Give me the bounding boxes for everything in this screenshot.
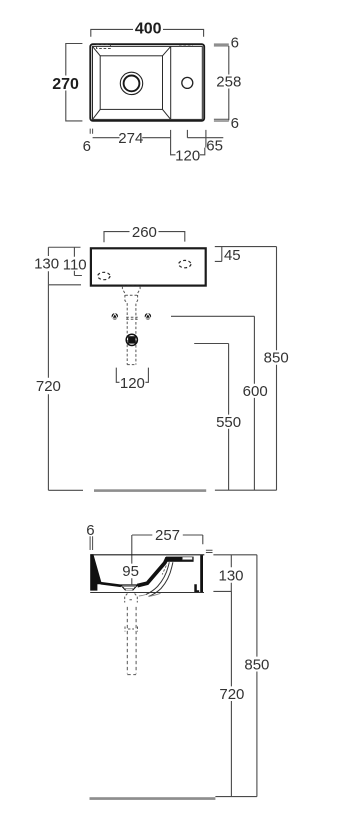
dim 110 line <box>74 247 82 275</box>
dim 95 extension line <box>131 535 133 584</box>
dim 550 line <box>194 344 228 491</box>
faucet hole slot <box>182 557 192 560</box>
dim 270 bracket <box>66 44 83 121</box>
dim 65 line <box>187 130 223 148</box>
svg-text:130: 130 <box>34 256 59 273</box>
drain flange (section) <box>121 585 138 590</box>
trap inlet dashes (side) <box>125 594 138 603</box>
svg-text:260: 260 <box>132 224 157 241</box>
dim 120 bracket (front) <box>116 368 148 383</box>
overflow dashed rectangle <box>97 45 111 49</box>
svg-text:258: 258 <box>216 74 241 91</box>
svg-text:65: 65 <box>206 138 223 155</box>
dim 130 line (side) <box>213 555 231 592</box>
right wall (section) <box>200 555 203 592</box>
faucet hole <box>182 77 193 88</box>
dim 120 bracket (plan) <box>171 148 205 155</box>
left top extension tick <box>48 246 80 248</box>
deck hidden dashed line <box>179 45 193 47</box>
right 6 bottom extension lines <box>214 119 229 121</box>
svg-text:400: 400 <box>135 21 162 38</box>
floor bar (side) <box>90 797 216 800</box>
basin front outline <box>91 248 206 285</box>
waste pipe dashed (side) <box>127 607 136 675</box>
deck band (section) <box>166 557 194 562</box>
waste outlet symbol <box>126 334 137 345</box>
bowl corner diagonal bottom-right <box>163 109 171 119</box>
dim 45 bracket <box>215 247 222 262</box>
drain trap dashed outline <box>122 286 140 364</box>
drain outer circle <box>120 72 142 94</box>
svg-text:550: 550 <box>216 414 241 431</box>
side top surface line <box>90 554 204 556</box>
bowl right divider <box>170 46 172 119</box>
right foot (section) <box>194 584 199 592</box>
svg-text:6: 6 <box>231 34 239 51</box>
svg-text:600: 600 <box>243 383 268 400</box>
svg-text:6: 6 <box>83 138 91 155</box>
bowl corner diagonal bottom-left <box>93 109 101 119</box>
dim 850 line (front) <box>276 247 278 491</box>
svg-text:130: 130 <box>218 567 243 584</box>
dimension baseline (side) <box>215 796 257 798</box>
svg-text:110: 110 <box>63 257 87 274</box>
top connector line (side) <box>213 554 257 556</box>
dim 600 line <box>171 316 254 490</box>
divider extension line <box>170 130 172 156</box>
svg-text:120: 120 <box>175 147 200 164</box>
svg-text:257: 257 <box>155 527 180 544</box>
dim 257 bracket <box>132 535 203 544</box>
dim 260 bracket <box>104 232 185 243</box>
basin outer rim <box>90 44 204 121</box>
channel under edges below bottom line <box>139 593 161 596</box>
svg-text:6: 6 <box>231 115 239 132</box>
drain inner circle <box>124 76 140 92</box>
svg-text:720: 720 <box>36 378 61 395</box>
svg-text:270: 270 <box>52 76 79 93</box>
bowl bottom band <box>101 583 121 586</box>
bottom 6 tick marks <box>90 129 92 134</box>
dim 274 line <box>93 137 171 139</box>
basin inner rim <box>93 46 203 119</box>
trap union dashed <box>126 317 138 319</box>
svg-text:45: 45 <box>224 247 241 264</box>
fixing screw right <box>145 313 151 319</box>
floor bar (front) <box>94 489 206 492</box>
svg-text:95: 95 <box>122 563 139 580</box>
svg-text:720: 720 <box>219 686 244 703</box>
bowl corner diagonal top-right <box>163 46 171 55</box>
fixing screw left <box>112 313 118 319</box>
svg-text:274: 274 <box>118 130 143 147</box>
overflow channel left edge <box>146 562 169 594</box>
overflow channel right edge <box>149 562 173 596</box>
side left wall section <box>90 554 101 590</box>
right rim extension marks <box>206 550 213 552</box>
svg-text:120: 120 <box>120 375 145 392</box>
side bottom line <box>90 592 204 594</box>
bowl bottom rectangle <box>100 56 162 110</box>
dim 850 line (side) <box>256 555 258 797</box>
pipe union dashed (side) <box>125 627 138 632</box>
faucet hole dashed ellipse <box>179 260 191 267</box>
dim 720 line (side) <box>230 591 232 796</box>
bowl right wall diagonal <box>137 558 167 586</box>
hidden edge dashes near channel <box>162 566 166 575</box>
overflow hole dashed ellipse <box>98 272 110 279</box>
top connector line to 850 <box>215 246 277 248</box>
bowl corner diagonal top-left <box>93 46 101 55</box>
svg-text:850: 850 <box>264 350 289 367</box>
dimension baseline (front) <box>215 489 277 491</box>
dim 130 line (front) <box>48 247 81 285</box>
dim 400 line <box>91 29 204 36</box>
svg-text:850: 850 <box>244 657 269 674</box>
dim 258 line <box>228 46 230 120</box>
dim 720 line (front) <box>48 285 83 491</box>
dim 6 tick marks (side) <box>90 536 93 550</box>
right 6 top extension lines <box>214 44 229 46</box>
